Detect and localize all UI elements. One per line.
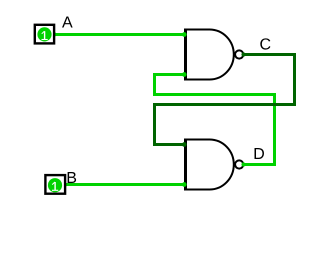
input pin A box xyxy=(35,25,54,44)
node: wire B end dot at U2 input xyxy=(182,182,187,187)
input pin A value circle (1) xyxy=(37,27,51,41)
node: pin A connection dot xyxy=(52,32,56,36)
NAND gate U2 body outline xyxy=(185,140,234,190)
node: wire C start dot at U1 bubble xyxy=(241,52,245,56)
NAND gate U1 body outline xyxy=(185,30,234,80)
wire C feedback (U1 output C to U2 upper input, logic 0) xyxy=(155,55,295,145)
node: wire C end dot at U2 input xyxy=(182,142,187,147)
label B xyxy=(68,172,77,183)
NAND gate U1 output bubble xyxy=(235,50,243,58)
wire D feedback (U2 output D to U1 lower input, logic 1) xyxy=(155,75,275,165)
wire B (pin B to U2 lower input, logic 1) xyxy=(65,183,186,186)
label C xyxy=(260,38,270,49)
NAND gate U1 back edge xyxy=(184,29,187,81)
label D xyxy=(255,148,264,159)
node: pin B connection dot xyxy=(63,182,68,187)
wire A (pin A to U1 upper input, logic 1) xyxy=(54,33,185,36)
node: wire D start dot at U2 bubble xyxy=(241,162,245,166)
input pin B box xyxy=(45,175,65,194)
input pin B digit 1 xyxy=(52,182,58,190)
input pin A digit 1 xyxy=(42,31,48,39)
input pin B value circle (1) xyxy=(48,178,62,192)
node: wire A end dot at U1 input xyxy=(182,32,187,37)
NAND gate U2 back edge xyxy=(184,139,187,191)
node: wire D end dot at U1 input xyxy=(182,72,187,77)
NAND gate U2 output bubble xyxy=(235,160,243,168)
label A xyxy=(62,16,73,27)
